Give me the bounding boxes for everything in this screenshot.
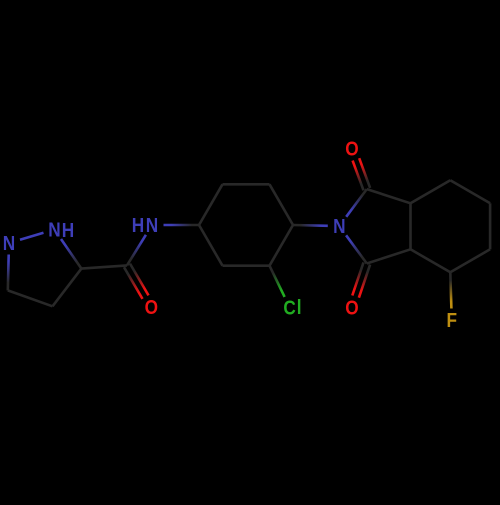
bond benzo C6-C5 xyxy=(489,203,492,249)
bond C5-C(=O) xyxy=(81,265,127,268)
bond benzene V1-V2 xyxy=(199,184,223,225)
svg-text:N: N xyxy=(3,233,15,256)
bond C3a-C3 xyxy=(367,249,411,263)
bond phenyl-N imide xyxy=(293,224,328,227)
double bond C=O amide xyxy=(124,267,143,299)
bond C1-C7a xyxy=(367,189,411,203)
bond benzo C5-C4 xyxy=(450,249,490,272)
svg-text:C: C xyxy=(283,297,296,320)
bond benzene V6-V1 xyxy=(199,225,223,266)
bond benzene V5-V6 xyxy=(223,264,270,267)
svg-text:O: O xyxy=(345,297,358,320)
svg-text:H: H xyxy=(132,215,144,238)
bond benzo C7a-C7 xyxy=(411,180,451,203)
bond benzene V2-V3 xyxy=(223,183,270,186)
double bond C3=O imide bottom xyxy=(352,262,363,295)
svg-text:H: H xyxy=(62,220,74,243)
bond C4-C3 pyrazole xyxy=(8,290,53,306)
bond N1-C5 pyrazole xyxy=(61,239,81,269)
bond C7a-C3a fusion xyxy=(409,203,412,249)
double bond C1=O imide top xyxy=(359,158,370,188)
bond C-F xyxy=(450,272,451,308)
bond N-C1 imide xyxy=(346,189,367,217)
bond benzo C4-C3a xyxy=(411,249,451,272)
bond N-C amide xyxy=(127,235,146,266)
bond benzene V3-V4 xyxy=(270,184,294,225)
bond C-Cl xyxy=(270,266,285,297)
bond C5-C4 pyrazole xyxy=(53,269,82,307)
svg-text:F: F xyxy=(446,310,457,333)
bond benzene V4-V5 xyxy=(270,225,294,266)
bond N2-N1 pyrazole xyxy=(20,233,44,240)
bond C3-N2 pyrazole xyxy=(7,255,10,291)
bond N-phenyl xyxy=(164,224,200,227)
svg-text:O: O xyxy=(145,297,158,320)
bond benzo C7-C6 xyxy=(450,180,490,203)
bond C3-N imide xyxy=(346,235,367,263)
svg-text:N: N xyxy=(146,215,158,238)
svg-text:l: l xyxy=(297,297,302,320)
svg-text:O: O xyxy=(345,138,358,161)
svg-text:N: N xyxy=(333,216,345,239)
svg-text:N: N xyxy=(48,219,60,242)
